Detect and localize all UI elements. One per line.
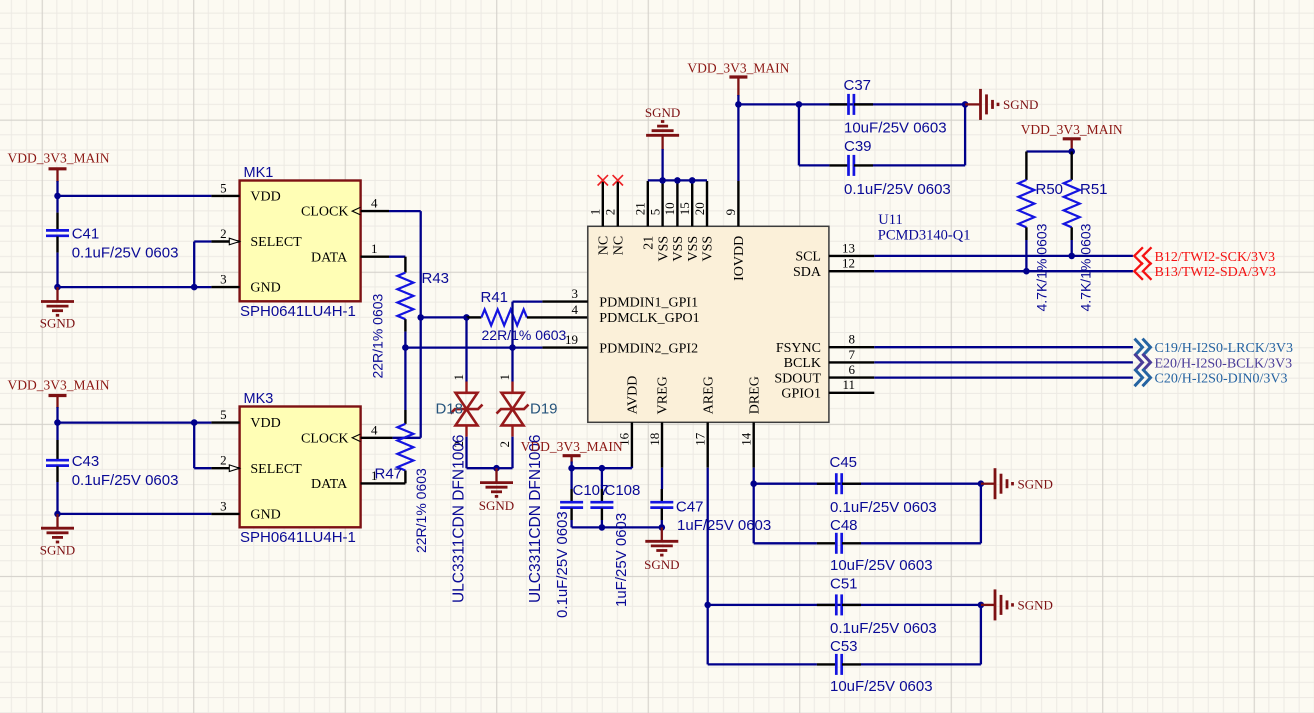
- wire: [754, 483, 981, 485]
- wire: [861, 542, 981, 544]
- svg-text:4: 4: [371, 422, 378, 437]
- junction: [978, 602, 985, 609]
- pin 16 AVDD (U11 bottom): [617, 376, 641, 468]
- pin 2 SELECT (MK3): [211, 453, 302, 477]
- TVS diode D19: [497, 348, 558, 603]
- svg-text:DREG: DREG: [747, 376, 762, 414]
- junction: [704, 602, 711, 609]
- svg-text:18: 18: [647, 433, 662, 446]
- svg-text:22R/1% 0603: 22R/1% 0603: [482, 327, 567, 343]
- wire: [497, 467, 513, 469]
- port C20/H-I2S0-DIN0/3V3: [1135, 369, 1288, 387]
- wire: [193, 242, 195, 288]
- wire: [570, 462, 572, 469]
- ground SGND (right of C51): [981, 589, 1053, 620]
- pin 14 DREG (U11 bottom): [739, 376, 763, 468]
- wire: [511, 302, 513, 348]
- pin 15 VSS (U11 top): [677, 181, 701, 262]
- junction: [659, 524, 666, 531]
- junction: [599, 465, 606, 472]
- wire: [1025, 240, 1027, 271]
- svg-text:SGND: SGND: [1018, 477, 1053, 492]
- wire: [58, 286, 212, 288]
- wire: [661, 520, 663, 527]
- svg-text:0.1uF/25V 0603: 0.1uF/25V 0603: [844, 181, 951, 198]
- svg-text:D19: D19: [530, 401, 558, 418]
- pin 6 SDOUT (U11 right): [774, 362, 874, 386]
- pin 4 CLOCK (MK3): [301, 422, 393, 446]
- capacitor C108: [590, 468, 640, 607]
- wire: [631, 467, 633, 469]
- no-connect X (pin 2): [613, 175, 623, 185]
- svg-text:5: 5: [220, 407, 227, 422]
- svg-text:VSS: VSS: [656, 236, 671, 262]
- wire: [707, 605, 709, 665]
- svg-text:0.1uF/25V 0603: 0.1uF/25V 0603: [830, 620, 937, 637]
- pin 9 IOVDD (U11 top): [723, 181, 747, 281]
- wire: [708, 604, 981, 606]
- svg-text:C37: C37: [844, 77, 872, 94]
- power port VDD_3V3_MAIN (top left): [8, 151, 110, 183]
- svg-text:VDD_3V3_MAIN: VDD_3V3_MAIN: [521, 439, 623, 454]
- svg-text:R43: R43: [422, 270, 450, 287]
- svg-text:22R/1% 0603: 22R/1% 0603: [413, 468, 429, 553]
- pin 17 AREG (U11 bottom): [693, 376, 717, 468]
- wire (LRCK net): [874, 346, 1133, 348]
- svg-text:AREG: AREG: [701, 376, 716, 414]
- wire: [56, 181, 58, 196]
- wire: [193, 423, 195, 469]
- svg-text:C43: C43: [72, 453, 100, 470]
- junction: [493, 465, 500, 472]
- pin 5 VDD (MK3): [211, 407, 280, 431]
- wire (DIN0 net): [874, 376, 1133, 378]
- svg-text:1uF/25V 0603: 1uF/25V 0603: [677, 517, 771, 534]
- IC U11 body: [588, 226, 829, 422]
- junction: [509, 344, 516, 351]
- svg-text:PDMCLK_GPO1: PDMCLK_GPO1: [599, 311, 699, 326]
- capacitor C51: [817, 576, 937, 638]
- svg-text:4: 4: [371, 196, 378, 211]
- pin 4 PDMCLK_GPO1 (U11 left): [572, 302, 700, 326]
- wire: [404, 332, 406, 348]
- wire: [389, 210, 421, 212]
- svg-text:SGND: SGND: [40, 543, 75, 558]
- svg-text:R50: R50: [1036, 181, 1064, 198]
- svg-text:VDD_3V3_MAIN: VDD_3V3_MAIN: [8, 151, 110, 166]
- wire (BCLK net): [874, 361, 1133, 363]
- junction: [54, 511, 61, 518]
- junction: [659, 177, 666, 184]
- wire: [58, 195, 212, 197]
- svg-text:PDMDIN1_GPI1: PDMDIN1_GPI1: [599, 295, 698, 310]
- junction: [689, 177, 696, 184]
- svg-text:2: 2: [220, 226, 227, 241]
- svg-text:12: 12: [842, 256, 855, 271]
- pin 13 SCL (U11 right): [795, 240, 874, 264]
- svg-text:5: 5: [647, 209, 662, 216]
- svg-text:MK3: MK3: [244, 391, 274, 407]
- resistor R41: [467, 289, 588, 343]
- svg-text:10: 10: [662, 202, 677, 215]
- svg-text:C47: C47: [676, 498, 704, 515]
- capacitor C107: [554, 468, 608, 618]
- power port VDD_3V3_MAIN (left, MK3): [8, 378, 110, 409]
- wire: [980, 605, 982, 665]
- junction: [191, 284, 198, 291]
- svg-text:7: 7: [849, 347, 856, 362]
- resistor R50: [1018, 152, 1063, 312]
- svg-text:CLOCK: CLOCK: [301, 431, 348, 446]
- svg-text:GPIO1: GPIO1: [781, 387, 821, 402]
- junction: [568, 465, 575, 472]
- wire (VSS rail): [648, 179, 707, 181]
- svg-text:NC: NC: [597, 236, 612, 255]
- capacitor C37: [829, 77, 946, 137]
- wire: [467, 467, 497, 469]
- ground SGND (below D18 D19): [479, 468, 514, 513]
- port E20/H-I2S0-BCLK/3V3: [1135, 354, 1293, 372]
- svg-text:15: 15: [677, 202, 692, 215]
- pin 12 SDA (U11 right): [793, 256, 874, 280]
- ground SGND (above U11, inverted): [645, 105, 680, 150]
- junction: [750, 480, 757, 487]
- svg-text:10uF/25V 0603: 10uF/25V 0603: [844, 120, 947, 137]
- wire: [194, 240, 211, 242]
- resistor R51: [1064, 152, 1108, 312]
- svg-text:SGND: SGND: [479, 498, 514, 513]
- junction: [417, 314, 424, 321]
- svg-text:VDD_3V3_MAIN: VDD_3V3_MAIN: [687, 61, 789, 76]
- wire: [465, 437, 467, 469]
- svg-text:20: 20: [692, 202, 707, 215]
- junction: [54, 419, 61, 426]
- wire: [56, 195, 58, 213]
- svg-text:VSS: VSS: [671, 236, 686, 262]
- svg-text:2: 2: [603, 209, 618, 216]
- wire: [1026, 150, 1071, 152]
- capacitor C39: [829, 138, 950, 198]
- svg-text:21: 21: [633, 202, 648, 215]
- svg-text:BCLK: BCLK: [784, 356, 821, 371]
- ground SGND (below C47): [644, 527, 679, 571]
- port C19/H-I2S0-LRCK/3V3: [1135, 339, 1293, 357]
- junction: [674, 177, 681, 184]
- svg-text:1: 1: [588, 209, 603, 216]
- svg-text:SELECT: SELECT: [250, 235, 302, 250]
- svg-text:C108: C108: [605, 482, 641, 499]
- ground SGND (right of C37): [965, 89, 1038, 120]
- svg-text:3: 3: [572, 286, 579, 301]
- wire: [798, 104, 800, 165]
- svg-text:0.1uF/25V 0603: 0.1uF/25V 0603: [554, 511, 571, 618]
- pin 8 FSYNC (U11 right): [776, 332, 874, 356]
- svg-text:9: 9: [723, 209, 738, 216]
- wire (AVDD net): [572, 467, 632, 469]
- junction: [1068, 253, 1075, 260]
- wire: [737, 95, 739, 181]
- pin 4 CLOCK (MK1): [301, 196, 389, 220]
- pin 20 VSS (U11 top): [692, 181, 716, 262]
- svg-text:SCL: SCL: [795, 250, 821, 265]
- svg-text:R41: R41: [481, 289, 509, 306]
- svg-text:SGND: SGND: [40, 316, 75, 331]
- power port VDD_3V3_MAIN (top middle): [687, 61, 789, 97]
- svg-text:AVDD: AVDD: [626, 376, 641, 415]
- pin 3 GND (MK1): [211, 272, 280, 296]
- wire: [601, 520, 603, 527]
- svg-text:C20/H-I2S0-DIN0/3V3: C20/H-I2S0-DIN0/3V3: [1155, 372, 1288, 387]
- junction: [599, 524, 606, 531]
- svg-text:1: 1: [497, 374, 512, 381]
- svg-text:GND: GND: [250, 281, 280, 296]
- port B12/TWI2-SCK/3V3: [1134, 247, 1275, 264]
- capacitor C43: [46, 440, 178, 489]
- svg-text:SELECT: SELECT: [250, 462, 302, 477]
- wire (SDA net): [874, 270, 1133, 272]
- wire: [799, 164, 830, 166]
- capacitor C48: [817, 517, 933, 574]
- ground SGND (below C43): [40, 514, 75, 558]
- wire: [661, 149, 663, 180]
- svg-text:C41: C41: [72, 226, 100, 243]
- svg-text:VDD_3V3_MAIN: VDD_3V3_MAIN: [1021, 122, 1123, 137]
- svg-text:6: 6: [849, 362, 856, 377]
- svg-text:10uF/25V 0603: 10uF/25V 0603: [830, 557, 933, 574]
- svg-text:B12/TWI2-SCK/3V3: B12/TWI2-SCK/3V3: [1155, 250, 1276, 265]
- pin 7 BCLK (U11 right): [784, 347, 875, 371]
- svg-text:MK1: MK1: [244, 165, 274, 181]
- svg-text:ULC3311CDN DFN1006: ULC3311CDN DFN1006: [451, 434, 468, 603]
- svg-text:VDD: VDD: [250, 190, 280, 205]
- no-connect X (pin 1): [598, 175, 608, 185]
- capacitor C47: [650, 468, 771, 534]
- svg-text:SGND: SGND: [1003, 97, 1038, 112]
- pin 3 PDMDIN1_GPI1 (U11 left): [542, 286, 698, 310]
- wire: [58, 513, 212, 515]
- svg-text:21: 21: [642, 236, 657, 250]
- wire: [708, 663, 817, 665]
- wire: [753, 468, 755, 484]
- capacitor C45: [817, 454, 937, 516]
- svg-text:1: 1: [451, 374, 466, 381]
- wire: [964, 104, 966, 165]
- svg-text:B13/TWI2-SDA/3V3: B13/TWI2-SDA/3V3: [1155, 265, 1276, 280]
- svg-text:VDD: VDD: [250, 416, 280, 431]
- pin 5 VDD (MK1): [211, 180, 280, 204]
- microphone MK1 body: [240, 181, 361, 302]
- svg-text:3: 3: [220, 272, 227, 287]
- svg-text:VSS: VSS: [701, 236, 716, 262]
- junction: [191, 419, 198, 426]
- wire: [56, 253, 58, 288]
- pin 1 NC (U11 top): [588, 181, 612, 255]
- junction: [402, 344, 409, 351]
- svg-text:E20/H-I2S0-BCLK/3V3: E20/H-I2S0-BCLK/3V3: [1155, 356, 1293, 371]
- resistor R47: [375, 348, 430, 553]
- pin 1 DATA (MK3): [311, 468, 405, 492]
- svg-text:FSYNC: FSYNC: [776, 341, 821, 356]
- pin 19 PDMDIN2_GPI2 (U11 left): [542, 332, 698, 356]
- svg-text:22R/1% 0603: 22R/1% 0603: [370, 293, 386, 378]
- svg-text:1: 1: [371, 241, 378, 256]
- power port VDD_3V3_MAIN (middle): [521, 439, 623, 463]
- capacitor C53: [817, 638, 933, 695]
- pin 18 VREG (U11 bottom): [647, 376, 671, 468]
- junction: [54, 193, 61, 200]
- svg-text:VDD_3V3_MAIN: VDD_3V3_MAIN: [8, 378, 110, 393]
- wire: [56, 407, 58, 423]
- ground SGND (right of C45): [981, 468, 1053, 499]
- svg-text:0.1uF/25V 0603: 0.1uF/25V 0603: [830, 499, 937, 516]
- svg-text:4.7K/1% 0603: 4.7K/1% 0603: [1077, 223, 1093, 311]
- wire: [513, 300, 543, 302]
- wire: [707, 468, 709, 605]
- svg-text:2: 2: [220, 453, 227, 468]
- svg-text:10uF/25V 0603: 10uF/25V 0603: [830, 678, 933, 695]
- svg-text:C19/H-I2S0-LRCK/3V3: C19/H-I2S0-LRCK/3V3: [1155, 341, 1293, 356]
- wire: [861, 663, 981, 665]
- wire: [389, 256, 405, 258]
- TVS diode D18: [435, 317, 482, 603]
- svg-text:0.1uF/25V 0603: 0.1uF/25V 0603: [72, 472, 179, 489]
- wire (PDMCLK net): [421, 316, 467, 318]
- svg-text:C45: C45: [830, 454, 858, 471]
- pin 3 GND (MK3): [211, 498, 280, 522]
- wire (SCL net): [874, 255, 1133, 257]
- svg-text:VSS: VSS: [686, 236, 701, 262]
- svg-text:IOVDD: IOVDD: [732, 236, 747, 281]
- pin 5 VSS (U11 top): [647, 181, 671, 262]
- svg-text:PCMD3140-Q1: PCMD3140-Q1: [878, 228, 971, 244]
- wire: [572, 526, 662, 528]
- svg-text:SPH0641LU4H-1: SPH0641LU4H-1: [240, 303, 356, 320]
- svg-text:DATA: DATA: [311, 477, 348, 492]
- svg-text:U11: U11: [878, 212, 902, 228]
- power port VDD_3V3_MAIN (right): [1021, 122, 1123, 152]
- junction: [1068, 148, 1075, 155]
- svg-text:GND: GND: [250, 507, 280, 522]
- capacitor C41: [46, 213, 178, 262]
- svg-text:5: 5: [220, 180, 227, 195]
- svg-text:C51: C51: [830, 576, 858, 593]
- svg-text:DATA: DATA: [311, 250, 348, 265]
- wire: [393, 437, 421, 439]
- svg-text:13: 13: [842, 240, 855, 255]
- svg-text:SGND: SGND: [645, 105, 680, 120]
- svg-text:11: 11: [842, 377, 855, 392]
- svg-text:SDOUT: SDOUT: [774, 371, 821, 386]
- junction: [735, 101, 742, 108]
- wire: [56, 482, 58, 514]
- svg-text:CLOCK: CLOCK: [301, 205, 348, 220]
- wire: [980, 484, 982, 544]
- svg-text:C39: C39: [844, 138, 872, 155]
- svg-text:PDMDIN2_GPI2: PDMDIN2_GPI2: [599, 341, 698, 356]
- svg-text:SGND: SGND: [1018, 598, 1053, 613]
- port B13/TWI2-SDA/3V3: [1134, 263, 1276, 281]
- wire: [1071, 240, 1073, 256]
- wire: [738, 103, 965, 105]
- svg-text:C48: C48: [830, 517, 858, 534]
- svg-text:ULC3311CDN DFN1006: ULC3311CDN DFN1006: [527, 434, 544, 603]
- wire: [511, 437, 513, 469]
- pin 10 VSS (U11 top): [662, 181, 686, 262]
- pin 2 SELECT (MK1): [211, 226, 302, 250]
- svg-text:2: 2: [497, 441, 512, 448]
- svg-text:R47: R47: [375, 466, 403, 483]
- svg-text:0.1uF/25V 0603: 0.1uF/25V 0603: [72, 245, 179, 262]
- svg-text:SPH0641LU4H-1: SPH0641LU4H-1: [240, 529, 356, 546]
- svg-text:VREG: VREG: [656, 376, 671, 414]
- pin 2 NC (U11 top): [603, 181, 627, 255]
- pin 1 DATA (MK1): [311, 241, 389, 265]
- wire: [754, 542, 817, 544]
- wire: [58, 421, 212, 423]
- svg-text:SGND: SGND: [644, 557, 679, 572]
- junction: [978, 480, 985, 487]
- svg-text:NC: NC: [612, 236, 627, 255]
- svg-text:SDA: SDA: [793, 265, 822, 280]
- svg-text:R51: R51: [1080, 181, 1108, 198]
- svg-text:4.7K/1% 0603: 4.7K/1% 0603: [1033, 223, 1049, 311]
- junction: [962, 101, 969, 108]
- svg-text:8: 8: [849, 332, 856, 347]
- wire: [420, 211, 422, 438]
- svg-text:4: 4: [572, 302, 579, 317]
- junction: [1023, 268, 1030, 275]
- wire: [873, 164, 965, 166]
- wire: [194, 467, 211, 469]
- svg-text:C53: C53: [830, 638, 858, 655]
- junction: [54, 284, 61, 291]
- wire: [753, 484, 755, 544]
- ground SGND (below C41): [40, 287, 75, 330]
- svg-text:17: 17: [693, 432, 708, 446]
- microphone MK3 body: [240, 407, 361, 528]
- pin 11 GPIO1 (U11 right): [781, 377, 874, 401]
- wire: [570, 520, 572, 527]
- junction: [796, 101, 803, 108]
- pin 21 21 (U11 top): [633, 181, 657, 250]
- svg-text:3: 3: [220, 498, 227, 513]
- junction: [463, 314, 470, 321]
- wire (PDMDIN net): [405, 346, 542, 348]
- svg-text:14: 14: [739, 432, 754, 446]
- resistor R43: [370, 257, 449, 379]
- svg-text:19: 19: [565, 332, 578, 347]
- svg-text:D18: D18: [435, 401, 463, 418]
- wire: [56, 423, 58, 440]
